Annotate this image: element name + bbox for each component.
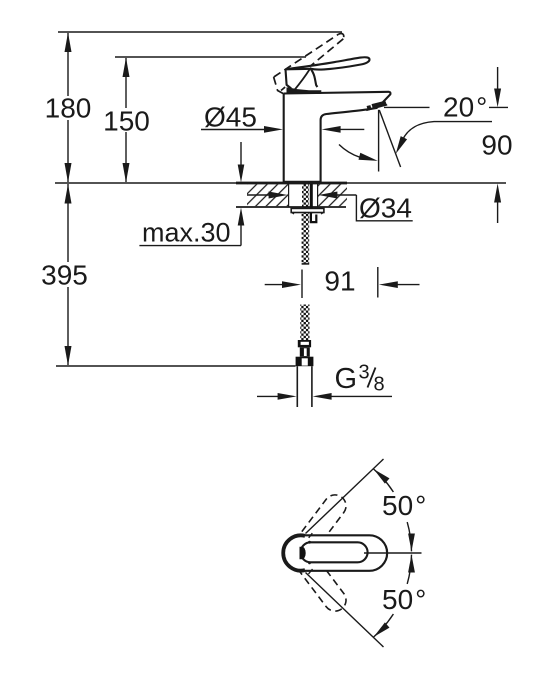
svg-text:180: 180	[45, 93, 92, 124]
wire deck top line	[284, 92, 389, 94]
50° upper boundary line	[306, 459, 384, 534]
body left edge	[283, 93, 285, 182]
label Ø45 with leader arrows	[201, 102, 364, 133]
dashed swing outline lower (-50°)	[288, 543, 350, 615]
mounting stud (dark bar)	[310, 184, 313, 213]
wire handle-top reference line (150 top)	[115, 56, 306, 58]
dimension 91	[265, 266, 420, 299]
dimension max.30	[139, 142, 244, 248]
dimension 180	[45, 33, 92, 183]
hose collar fitting	[298, 340, 311, 347]
faucet: handle body (cartridge housing)	[286, 67, 318, 92]
50° lower boundary line	[306, 573, 384, 648]
wire hose-end reference line (395 bottom)	[56, 365, 296, 367]
dimension 150	[103, 58, 150, 183]
dashed swing outline upper (+50°)	[288, 490, 350, 562]
svg-text:G: G	[335, 363, 358, 395]
dimension G 3/8	[257, 362, 392, 400]
svg-text:20°: 20°	[443, 92, 487, 123]
wire counter top surface line	[55, 182, 506, 184]
svg-text:max.30: max.30	[142, 218, 231, 248]
svg-text:3: 3	[359, 362, 370, 384]
label Ø34 with underline leader	[356, 193, 412, 224]
wire top reference line (180 top)	[58, 31, 342, 33]
50° upper arc dimension	[374, 469, 427, 551]
faucet: dashed raised-handle outline	[274, 33, 344, 94]
svg-text:50°: 50°	[382, 584, 426, 615]
svg-text:8: 8	[374, 374, 385, 396]
faucet: handle neck crease	[310, 68, 317, 87]
flexible hose lower segment	[300, 305, 309, 341]
svg-text:Ø34: Ø34	[359, 193, 412, 224]
faucet body outline	[284, 92, 391, 183]
center line	[364, 552, 422, 554]
junction ticks	[309, 533, 313, 538]
50° lower arc dimension	[374, 555, 427, 637]
dimension 395	[40, 184, 89, 366]
body right edge and spout underside	[321, 108, 378, 183]
spout front edge	[382, 92, 391, 104]
G3/8 hex nut	[296, 357, 314, 367]
threaded shank (braided) through counter	[302, 184, 309, 208]
faucet body top view: bold circle	[282, 535, 317, 570]
lever top view: inner obround	[301, 542, 368, 562]
counter slab cross-section	[236, 183, 347, 207]
dimension 90	[481, 67, 512, 223]
20° angle construction: vertical line, tilted stream line, arc arrow	[339, 110, 401, 172]
svg-text:395: 395	[41, 260, 88, 291]
spout aerator (black)	[372, 101, 387, 109]
mounting washer / flange	[291, 208, 324, 214]
faucet: handle lever (solid)	[286, 57, 370, 69]
spout outlet (black D)	[300, 547, 306, 559]
faucet: handle body front slant line	[294, 69, 310, 90]
flexible hose upper segment	[302, 213, 310, 264]
svg-text:150: 150	[103, 106, 150, 137]
connection pipe	[297, 366, 312, 407]
faucet base gasket line on counter	[283, 181, 321, 184]
handle top view: outer obround	[300, 535, 387, 571]
svg-text:91: 91	[324, 266, 355, 297]
svg-text:90: 90	[481, 130, 512, 161]
label 20° with leader	[384, 92, 492, 154]
svg-text:50°: 50°	[382, 490, 426, 521]
faucet: handle base escutcheon (black band)	[287, 87, 322, 94]
dimension arrows at mounting hole (Ø34)	[247, 192, 356, 199]
hose neck	[300, 347, 310, 356]
svg-text:Ø45: Ø45	[204, 102, 257, 133]
mounting nut bracket	[310, 213, 318, 223]
